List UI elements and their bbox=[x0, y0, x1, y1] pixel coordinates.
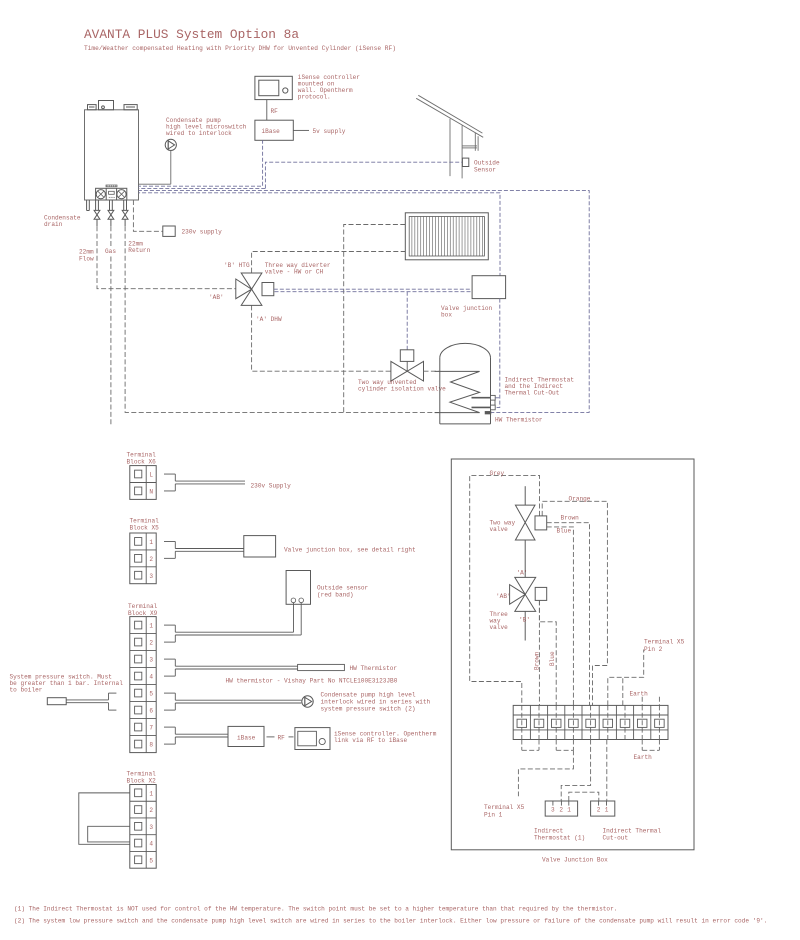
condensate pump wire bbox=[139, 151, 171, 185]
grey wire bbox=[470, 475, 540, 705]
svg-text:(1) The Indirect Thermostat is: (1) The Indirect Thermostat is NOT used … bbox=[14, 906, 617, 913]
gas pipe valve bbox=[108, 200, 114, 226]
HW thermistor (X9) bbox=[298, 664, 345, 670]
terminal block X6 label bbox=[127, 452, 157, 466]
svg-text:5: 5 bbox=[149, 857, 153, 864]
svg-text:'A': 'A' bbox=[517, 570, 528, 577]
svg-text:Gas: Gas bbox=[105, 248, 116, 255]
condensate pump label bbox=[166, 117, 247, 137]
svg-text:3: 3 bbox=[149, 657, 153, 664]
svg-text:Terminal X5: Terminal X5 bbox=[644, 639, 685, 646]
svg-text:5: 5 bbox=[149, 691, 153, 698]
terminal block X2 bbox=[130, 785, 156, 869]
terminal block X5 bbox=[130, 533, 156, 584]
svg-text:AVANTA PLUS System Option 8a: AVANTA PLUS System Option 8a bbox=[84, 27, 299, 42]
svg-text:4: 4 bbox=[149, 674, 153, 681]
blue label (two way) bbox=[557, 528, 572, 535]
radiator bbox=[405, 213, 488, 260]
bus wire to iBase bbox=[139, 140, 263, 186]
indirect thermostat note bbox=[505, 377, 575, 397]
valve junction box label bbox=[441, 305, 493, 319]
earth link below strip bbox=[642, 740, 659, 751]
wire col6 to cutout pin 1 bbox=[606, 740, 608, 802]
svg-text:3: 3 bbox=[149, 573, 153, 580]
orange label bbox=[569, 496, 591, 503]
earth label above strip bbox=[630, 691, 649, 698]
svg-text:Brown: Brown bbox=[561, 515, 580, 522]
gas pipe bbox=[110, 226, 112, 426]
svg-text:Block X2: Block X2 bbox=[127, 778, 157, 785]
svg-text:5v supply: 5v supply bbox=[313, 128, 346, 135]
blue label (three way) bbox=[549, 651, 556, 666]
wire to 230v supply bbox=[133, 200, 162, 231]
two way valve label (panel) bbox=[490, 520, 516, 534]
svg-text:Outside: Outside bbox=[474, 160, 500, 167]
three way valve labels bbox=[209, 262, 282, 323]
thermostat pocket 1 bbox=[472, 395, 496, 400]
svg-text:1: 1 bbox=[605, 807, 609, 814]
svg-text:wired to interlock: wired to interlock bbox=[166, 130, 232, 137]
5v supply label bbox=[313, 128, 346, 135]
svg-text:to boiler: to boiler bbox=[10, 687, 43, 694]
svg-text:HW Thermistor: HW Thermistor bbox=[495, 417, 543, 424]
svg-text:'B' HTG: 'B' HTG bbox=[224, 262, 250, 269]
iBase cable bbox=[164, 727, 228, 744]
pipe labels bbox=[79, 240, 151, 262]
svg-text:Terminal: Terminal bbox=[128, 603, 158, 610]
pocket link bbox=[494, 400, 496, 405]
outside sensor label (top) bbox=[474, 160, 500, 174]
blue wire (two way) bbox=[547, 527, 574, 706]
svg-text:Flow: Flow bbox=[79, 255, 94, 262]
HW thermistor label (X9) bbox=[350, 665, 398, 672]
system pressure switch wires bbox=[66, 693, 116, 710]
valve junction box caption bbox=[542, 857, 608, 864]
cable to valve junction box bbox=[164, 541, 244, 558]
svg-text:1: 1 bbox=[567, 807, 571, 814]
HW thermistor (cylinder) bbox=[485, 412, 490, 414]
DHW pipe to cylinder bbox=[424, 370, 439, 372]
three way valve V4 bbox=[510, 577, 547, 640]
svg-text:Outside sensor: Outside sensor bbox=[317, 585, 369, 592]
svg-text:Block X5: Block X5 bbox=[130, 525, 160, 532]
valve junction box note bbox=[284, 547, 416, 554]
condensate drain pipe bbox=[87, 200, 90, 211]
indirect thermostat label bbox=[534, 828, 585, 842]
svg-text:Brown: Brown bbox=[534, 651, 541, 670]
svg-text:Valve Junction Box: Valve Junction Box bbox=[542, 857, 608, 864]
svg-text:Sensor: Sensor bbox=[474, 167, 496, 174]
svg-text:230v supply: 230v supply bbox=[182, 229, 223, 236]
bus wire to valve junction box bbox=[139, 193, 501, 276]
svg-text:Earth: Earth bbox=[634, 754, 653, 761]
svg-text:protocol.: protocol. bbox=[298, 94, 331, 101]
flow pipe valve bbox=[94, 200, 100, 226]
svg-text:Terminal: Terminal bbox=[130, 518, 160, 525]
brown label (three way) bbox=[534, 651, 541, 670]
svg-text:Terminal: Terminal bbox=[127, 452, 157, 459]
svg-text:Pin 1: Pin 1 bbox=[484, 812, 503, 819]
iBase (bottom) bbox=[228, 726, 264, 746]
three way valve labels (panel) bbox=[496, 570, 530, 624]
system pressure switch bbox=[47, 698, 66, 705]
link below strip cols 3-4 bbox=[556, 740, 573, 751]
terminal X5 pin 2 label bbox=[644, 639, 685, 654]
terminal block X9 label bbox=[128, 603, 158, 617]
230v supply cable bbox=[164, 474, 245, 491]
flow pipe bbox=[97, 226, 236, 289]
svg-text:Terminal X5: Terminal X5 bbox=[484, 804, 525, 811]
svg-text:Block X9: Block X9 bbox=[128, 610, 158, 617]
svg-text:cylinder isolation valve: cylinder isolation valve bbox=[358, 386, 446, 393]
condensate pump P2 bbox=[302, 696, 313, 707]
svg-text:1: 1 bbox=[149, 790, 153, 797]
iSense controller label bbox=[298, 74, 361, 101]
RF link (bottom) bbox=[267, 734, 294, 741]
earth label below strip bbox=[634, 754, 653, 761]
cylinder coil bbox=[435, 371, 480, 412]
brown wire (three way) bbox=[538, 600, 540, 705]
svg-text:2: 2 bbox=[597, 807, 601, 814]
thermistor part number note bbox=[226, 678, 398, 685]
pocket wires bbox=[495, 299, 500, 408]
outside sensor (top) bbox=[462, 158, 468, 166]
svg-text:valve: valve bbox=[490, 526, 509, 533]
link below strip cols 1-2 bbox=[522, 740, 539, 751]
svg-text:(2) The system low pressure sw: (2) The system low pressure switch and t… bbox=[14, 918, 767, 925]
iBase (top) bbox=[255, 120, 293, 140]
terminal block X5 label bbox=[130, 518, 160, 532]
series link thermostat to cutout bbox=[569, 792, 599, 801]
condensate drain label bbox=[44, 215, 81, 229]
roof bbox=[416, 95, 483, 178]
svg-text:Condensate pump high level: Condensate pump high level bbox=[321, 692, 416, 699]
indirect thermal cutout S2 bbox=[591, 801, 615, 816]
svg-text:RF: RF bbox=[278, 734, 286, 741]
230v supply label bbox=[182, 229, 223, 236]
svg-text:system pressure switch (2): system pressure switch (2) bbox=[321, 706, 416, 713]
earth stubs above strip bbox=[642, 697, 659, 706]
outside sensor wire bbox=[265, 162, 462, 188]
three way diverter valve V1 bbox=[236, 273, 274, 305]
svg-text:drain: drain bbox=[44, 221, 63, 228]
svg-text:HW thermistor - Vishay Part No: HW thermistor - Vishay Part No NTCLE100E… bbox=[226, 678, 398, 685]
bus wire to outside sensor bbox=[139, 187, 266, 189]
HW thermistor cable bbox=[164, 659, 298, 676]
wire col5 to thermostat pin 2 bbox=[561, 740, 590, 802]
svg-text:Blue: Blue bbox=[549, 651, 556, 666]
230v supply box bbox=[163, 226, 175, 236]
cylinder return line bbox=[435, 412, 480, 414]
svg-text:4: 4 bbox=[149, 841, 153, 848]
5v supply wire bbox=[293, 129, 309, 131]
svg-text:Indirect Thermal: Indirect Thermal bbox=[603, 828, 662, 835]
terminal block X6 bbox=[130, 466, 156, 500]
svg-text:2: 2 bbox=[149, 556, 153, 563]
brown label (two way) bbox=[561, 515, 580, 522]
iSense controller (bottom) bbox=[295, 728, 330, 750]
svg-text:box: box bbox=[441, 312, 452, 319]
svg-text:'A' DHW: 'A' DHW bbox=[256, 316, 282, 323]
thermostat pocket 2 bbox=[472, 405, 496, 410]
terminal strip bbox=[513, 705, 668, 739]
svg-text:2: 2 bbox=[559, 807, 563, 814]
system pressure switch note bbox=[10, 674, 124, 694]
svg-text:Earth: Earth bbox=[630, 691, 649, 698]
terminal X5 pin 1 wire bbox=[518, 750, 573, 796]
svg-text:iBase: iBase bbox=[262, 128, 281, 135]
svg-text:Blue: Blue bbox=[557, 528, 572, 535]
title text bbox=[84, 27, 396, 52]
two way valve label bbox=[358, 379, 446, 393]
brown wire (two way) bbox=[547, 523, 590, 706]
terminal block X2 label bbox=[127, 771, 157, 785]
svg-text:'AB': 'AB' bbox=[209, 294, 224, 301]
outside sensor cable bbox=[164, 603, 301, 643]
svg-text:Cut-out: Cut-out bbox=[603, 835, 629, 842]
terminal X5 pin 2 wire bbox=[608, 650, 644, 706]
svg-text:link via RF to iBase: link via RF to iBase bbox=[334, 737, 407, 744]
svg-text:2: 2 bbox=[149, 640, 153, 647]
svg-text:Grey: Grey bbox=[490, 470, 505, 477]
indirect thermal cutout label bbox=[603, 828, 662, 842]
footnote 2 bbox=[14, 918, 767, 925]
footnote 1 bbox=[14, 906, 617, 913]
outside sensor (bottom) bbox=[286, 571, 310, 605]
grey label bbox=[490, 470, 505, 477]
condensate pump note bbox=[321, 692, 431, 713]
svg-text:'AB': 'AB' bbox=[496, 593, 511, 600]
svg-text:Indirect: Indirect bbox=[534, 828, 564, 835]
return pipe bbox=[125, 226, 439, 412]
X2 link wire 1-4 bbox=[79, 793, 130, 844]
svg-text:1: 1 bbox=[149, 623, 153, 630]
svg-text:Valve junction box, see detail: Valve junction box, see detail right bbox=[284, 547, 416, 554]
svg-text:(red band): (red band) bbox=[317, 592, 354, 599]
svg-text:HW Thermistor: HW Thermistor bbox=[350, 665, 398, 672]
terminal X5 pin 1 label bbox=[484, 804, 525, 819]
wire to two way valve actuator bbox=[406, 292, 408, 350]
hot water cylinder bbox=[440, 343, 491, 424]
X2 link wire 3-4 bbox=[88, 826, 130, 842]
svg-text:3: 3 bbox=[551, 807, 555, 814]
three way valve note bbox=[265, 262, 331, 276]
svg-text:Orange: Orange bbox=[569, 496, 591, 503]
svg-text:'B': 'B' bbox=[519, 617, 530, 624]
svg-text:230v Supply: 230v Supply bbox=[251, 483, 292, 490]
svg-text:7: 7 bbox=[149, 725, 153, 732]
svg-text:Terminal: Terminal bbox=[127, 771, 157, 778]
orange wire bbox=[542, 501, 607, 705]
svg-text:6: 6 bbox=[149, 708, 153, 715]
blue wire (three way) bbox=[539, 600, 556, 705]
svg-text:2: 2 bbox=[149, 807, 153, 814]
RF link (top) bbox=[267, 100, 278, 121]
heating flow pipe B bbox=[252, 252, 406, 273]
DHW pipe A bbox=[252, 305, 391, 371]
boiler bbox=[85, 101, 139, 201]
svg-text:valve: valve bbox=[490, 624, 509, 631]
valve junction box (top) bbox=[472, 276, 506, 299]
valve junction box panel bbox=[451, 459, 694, 850]
return pipe valve bbox=[122, 200, 128, 226]
svg-text:Time/Weather compensated Heati: Time/Weather compensated Heating with Pr… bbox=[84, 45, 396, 52]
svg-text:iBase: iBase bbox=[237, 734, 256, 741]
terminal block X9 bbox=[130, 617, 156, 753]
HW thermistor label (top) bbox=[495, 417, 543, 424]
bus wire to HW thermistor bbox=[139, 191, 590, 413]
svg-text:valve - HW or CH: valve - HW or CH bbox=[265, 268, 324, 275]
valve junction box (X5) bbox=[244, 536, 276, 557]
svg-text:1: 1 bbox=[149, 539, 153, 546]
svg-text:Pin 2: Pin 2 bbox=[644, 646, 663, 653]
svg-text:Thermostat (1): Thermostat (1) bbox=[534, 835, 585, 842]
svg-text:L: L bbox=[149, 472, 153, 479]
two way valve V3 bbox=[515, 486, 546, 577]
svg-text:Return: Return bbox=[128, 247, 150, 254]
condensate pump P1 bbox=[165, 139, 176, 150]
230v supply label (X6) bbox=[251, 483, 292, 490]
iSense controller note bbox=[334, 731, 437, 745]
svg-text:Thermal Cut-Out: Thermal Cut-Out bbox=[505, 390, 560, 397]
outside sensor label (bottom) bbox=[317, 585, 369, 599]
two way valve V2 bbox=[391, 350, 424, 381]
svg-text:3: 3 bbox=[149, 824, 153, 831]
three way valve actuator wires bbox=[274, 289, 472, 292]
svg-text:Block X6: Block X6 bbox=[127, 459, 157, 466]
condensate pump cable bbox=[164, 693, 301, 710]
svg-text:interlock wired in series with: interlock wired in series with bbox=[321, 699, 431, 706]
strip column pass-through wires bbox=[522, 705, 660, 739]
radiator return pipe bbox=[344, 225, 406, 413]
iSense controller (top) bbox=[255, 76, 292, 99]
svg-text:N: N bbox=[149, 489, 153, 496]
indirect thermostat S1 bbox=[545, 801, 577, 816]
svg-text:RF: RF bbox=[271, 108, 279, 115]
svg-text:8: 8 bbox=[149, 742, 153, 749]
